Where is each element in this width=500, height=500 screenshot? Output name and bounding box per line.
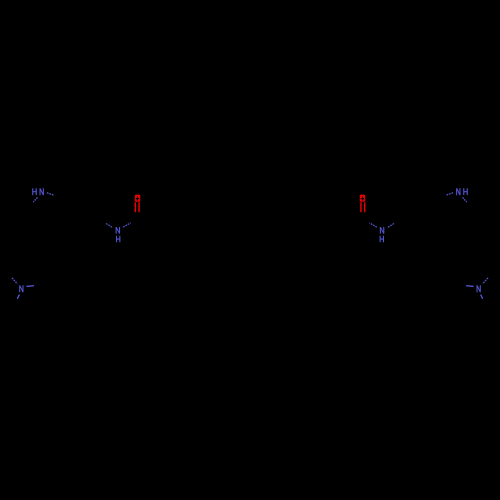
wire bond C5ring-N3 (blue half): [106, 224, 113, 228]
wire bond C5ring-N4 (blue half): [387, 224, 394, 228]
wire bond N2-CH3 right (blue half): [26, 285, 34, 288]
wire double bond C=O2 (red halves): [360, 202, 362, 212]
atom O2 right carbonyl O label: [360, 195, 365, 202]
wire bond N5-C7a (blue half): [446, 193, 453, 196]
wire bond N6-CH3 down (blue half): [481, 295, 483, 299]
atom N6 right dimethylamino N label: [477, 285, 481, 292]
wire double bond C=O1 (red halves): [134, 202, 136, 212]
wire bond N6-CH3 left (blue half): [466, 285, 474, 288]
atom O1 left carbonyl O label: [135, 195, 140, 202]
wire bond N5-C2 (blue half): [463, 197, 467, 202]
wire bond N1-C2 (blue half): [33, 197, 37, 202]
wire bond N1-C7a (blue half): [47, 193, 54, 196]
wire bond N4-C(=O) (blue half): [370, 223, 377, 227]
atom N2 left dimethylamino N label: [19, 285, 23, 292]
atom N5 right indole NH label "NH": [456, 188, 468, 195]
atom N1 left indole NH label "HN": [32, 188, 44, 195]
wire bond N6-CH2 up-right (blue half): [483, 278, 488, 284]
wire bond N2-CH3 down (blue half): [17, 295, 19, 299]
wire bond N3-C(=O) (blue half): [123, 223, 130, 227]
atom N4 right amide N label with H below: [380, 227, 385, 242]
atom N3 left amide N label with H below: [116, 227, 121, 242]
wire bond N2-CH2 up-left (blue half): [12, 278, 17, 284]
